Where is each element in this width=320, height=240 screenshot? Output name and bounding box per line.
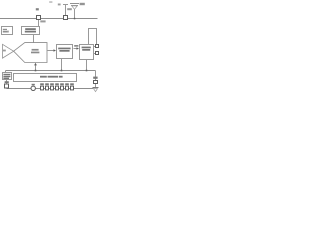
label box B internal reference: [25, 28, 36, 30]
wire box C to bottom pin: [6, 80, 8, 84]
pin D4: [55, 86, 59, 91]
labels bottom pins row: [40, 83, 44, 85]
box E conversion control: [56, 44, 73, 59]
wire pin VDD down to reference box: [38, 20, 40, 27]
box F output buffers: [79, 44, 94, 60]
label VDD pin: [36, 8, 39, 10]
wire control rail up to ADC arrow body: [35, 65, 37, 71]
capacitor C1 plate 1: [70, 3, 79, 5]
wire pin VREF up: [65, 5, 67, 16]
box B internal reference: [21, 26, 40, 35]
wire bottom rail: [7, 88, 94, 90]
wire supply T-bar: [63, 4, 68, 6]
pin ALERT circle: [31, 86, 35, 90]
wire output box to right pin SDA: [94, 46, 96, 48]
label 0.1uF near VDD pin: [40, 20, 45, 22]
wire control rail down to GND pin: [95, 71, 97, 81]
pin D1: [40, 86, 44, 91]
pin CONVST bottom left: [4, 84, 9, 89]
box C registers: [2, 72, 12, 80]
junction dot control rail at output box: [86, 70, 88, 72]
junction dot control rail at ADC arrow: [35, 70, 37, 72]
op-amp T/H buffer triangle: [3, 44, 14, 58]
label box A text: [3, 29, 7, 31]
pin SCL: [95, 51, 99, 55]
label bottom pin CONVST: [5, 81, 9, 83]
wire capacitor C1 to rail: [74, 9, 76, 19]
label GND: [93, 77, 97, 79]
label cap value 0.1uF: [80, 3, 85, 5]
pin VREF: [63, 15, 68, 20]
pin SDA: [95, 44, 99, 48]
label faint 2.5V top: [49, 1, 52, 3]
wire control rail into box C: [5, 71, 7, 74]
ADC hexagon U1: [14, 43, 47, 63]
label pin ALERT: [32, 84, 35, 86]
ground symbol bottom bar: [93, 87, 99, 89]
box A regulator: [1, 26, 13, 35]
arrowhead into output box: [77, 47, 80, 50]
pin D7: [70, 86, 74, 91]
background: [0, 0, 100, 100]
pin D5: [60, 86, 64, 91]
ground symbol top (open triangle): [72, 6, 78, 9]
label control interface box: [40, 76, 47, 78]
pin D3: [50, 86, 54, 91]
wire control rail horizontal: [6, 70, 96, 72]
wire ADC to conversion box: [48, 50, 55, 52]
box D control interface: [13, 73, 77, 82]
arrowhead up into ADC: [34, 63, 37, 66]
pin GND: [93, 80, 98, 84]
label data near arrow: [74, 45, 78, 47]
wire GND pin to ground symbol: [95, 84, 97, 88]
pin D2: [45, 86, 49, 91]
junction dot rail-cap: [74, 18, 76, 20]
junction dot control rail at conversion box: [61, 70, 63, 72]
wire conversion box to output box: [74, 48, 78, 50]
capacitor C1 plate 2: [71, 5, 78, 7]
wire output box top L-path: [89, 29, 97, 45]
label conversion box: [58, 48, 70, 50]
arrowhead into conversion box: [54, 49, 57, 52]
label REF: [67, 8, 72, 10]
wire conversion box down to control rail: [61, 59, 63, 71]
label ADC 12-bit sar: [32, 49, 39, 51]
pin D6: [65, 86, 69, 91]
label output buffers: [82, 47, 91, 49]
wire output box down to control rail: [86, 60, 88, 71]
label T/H: [3, 50, 6, 52]
wire output box to right pin SCL: [94, 53, 96, 55]
label box C: [3, 74, 10, 75]
ground symbol bottom triangle: [94, 89, 98, 92]
wire top supply rail VDD: [0, 18, 98, 20]
pin VDD: [36, 15, 41, 20]
wire reference box down to ADC: [33, 35, 35, 43]
label VDRIVE: [58, 4, 61, 6]
